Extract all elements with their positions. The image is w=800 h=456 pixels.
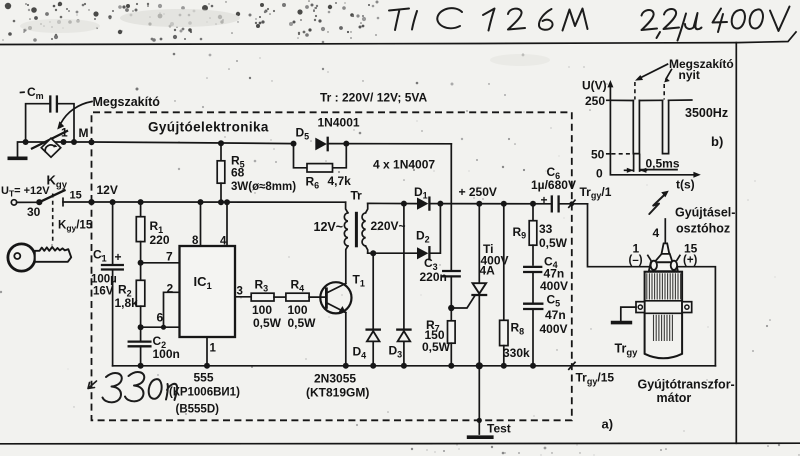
svg-text:16V: 16V (93, 286, 114, 298)
wire pin 2 (tied to pin 6) (161, 282, 180, 330)
wire pin 7 (141, 250, 180, 264)
svg-text:4: 4 (653, 226, 660, 240)
lightning arrow to distributor (649, 191, 669, 214)
svg-text:6: 6 (157, 311, 164, 325)
ground (coil bracket) (611, 307, 636, 323)
svg-text:2N3055: 2N3055 (314, 372, 356, 386)
svg-text:250: 250 (585, 94, 605, 108)
0,5ms width marker (625, 155, 680, 173)
coil mounting bracket (636, 301, 692, 314)
wire T1 emitter to ground rail (343, 313, 349, 369)
value label 330n (handwritten) (88, 372, 177, 402)
svg-text:+: + (541, 193, 548, 207)
battery terminal U_T=+12V (1, 185, 50, 205)
waveform 250V line with pulses (610, 100, 691, 154)
junction (Cm right leg) (71, 139, 77, 145)
transistor T1 2N3055 (306, 273, 369, 400)
svg-text:1N4001: 1N4001 (318, 116, 360, 130)
Gyujtoelektronika dashed enclosure (92, 112, 572, 420)
switch Kgy arm (39, 173, 67, 203)
capacitor C4 47n 400V (524, 254, 568, 302)
svg-text:100: 100 (252, 303, 272, 317)
svg-text:(+): (+) (683, 254, 698, 266)
wire pin 6 (141, 311, 180, 328)
svg-text:220: 220 (150, 233, 170, 247)
svg-text:4,7k: 4,7k (328, 174, 352, 188)
node (D4 tap) (370, 250, 376, 256)
crossing slash at box edge (Trgy/1) (569, 185, 612, 208)
svg-text:t(s): t(s) (676, 177, 695, 191)
svg-text:M: M (79, 126, 89, 140)
svg-text:nyit: nyit (679, 68, 700, 82)
wire R3-R4 (274, 296, 286, 298)
svg-text:1: 1 (210, 343, 217, 355)
wire secondary bottom to D2 (368, 252, 417, 254)
svg-text:Gyújtótranszfor-: Gyújtótranszfor- (638, 377, 735, 391)
diode D5 1N4001 (291, 116, 360, 151)
svg-text:Megszakító: Megszakító (93, 95, 161, 109)
svg-text:0,5W: 0,5W (253, 316, 282, 330)
svg-text:Test: Test (487, 422, 511, 436)
breaker contact (Megszakito) with cam (32, 131, 67, 157)
node thyristor/test junction (476, 362, 483, 369)
svg-text:68: 68 (231, 166, 245, 180)
svg-text:2: 2 (167, 282, 174, 296)
svg-text:(–): (–) (629, 254, 643, 266)
wire ground rail (bottom) (113, 365, 716, 367)
node R2/C2/pin6 junction (138, 324, 144, 330)
svg-text:(KT819GM): (KT819GM) (306, 386, 369, 400)
wire (15 to 12V rail) (63, 201, 92, 203)
crossing slash at box edge (Trgy/15) (569, 362, 615, 386)
node M at box edge (88, 199, 94, 205)
label Megszakito with leader arrow (57, 95, 160, 130)
ground Test (467, 422, 511, 438)
ground (top left, breaker circuit) (8, 142, 28, 158)
wire secondary top to D1 (368, 202, 417, 204)
svg-text:3: 3 (237, 286, 243, 298)
ignition key symbol (8, 244, 71, 271)
coil terminal 15 (+) (671, 242, 698, 270)
wire +250V rail (440, 203, 550, 205)
wire to Test ground (477, 366, 482, 434)
value label TIC 126 M (handwritten) (389, 8, 588, 30)
resistor R2 1,8k (115, 263, 145, 327)
resistor R7 150 0,5W (422, 308, 455, 369)
value label 2,2u 400V (handwritten) (642, 7, 790, 41)
capacitor C3 220n (420, 256, 460, 308)
wire 12V rail (92, 201, 346, 203)
diode D4 (353, 253, 380, 369)
resistor R5 68 3W (217, 140, 296, 205)
diode D2 (416, 204, 440, 260)
svg-text:15: 15 (70, 190, 82, 202)
svg-text:Tr: Tr (351, 189, 363, 203)
resistor R8 330k (500, 201, 530, 369)
capacitor C5 47n 400V (524, 293, 567, 369)
node M (79, 126, 95, 145)
svg-text:0,5W: 0,5W (422, 340, 451, 354)
terminal 15 (63, 190, 82, 206)
svg-text:0,5ms: 0,5ms (646, 157, 680, 171)
svg-text:8: 8 (192, 235, 199, 247)
svg-text:0: 0 (596, 166, 603, 180)
svg-text:4A: 4A (480, 264, 496, 278)
node (D3 tap) (401, 201, 407, 207)
resistor R3 100 0,5W (251, 278, 281, 330)
svg-text:50: 50 (591, 148, 605, 162)
svg-text:(КР1006ВИ1): (КР1006ВИ1) (169, 387, 240, 399)
svg-text:Gyújtásel-: Gyújtásel- (675, 206, 735, 220)
label Gyujtotranszformator (638, 377, 735, 405)
capacitor Cm (21, 85, 75, 142)
ignition transformer Trgy (coil body) (645, 243, 683, 358)
svg-text:3W(ø≈8mm): 3W(ø≈8mm) (231, 181, 296, 193)
wire terminal 4 (HT lead) (653, 219, 666, 243)
svg-text:0,5W: 0,5W (288, 316, 317, 330)
svg-text:400V: 400V (540, 322, 568, 336)
wire D5 branch down (M pulse line) (450, 144, 452, 269)
svg-text:400V: 400V (540, 279, 568, 293)
svg-text:12V: 12V (97, 183, 118, 197)
svg-text:3500Hz: 3500Hz (685, 106, 728, 120)
label Megszakito nyit with leader arrows (635, 57, 734, 100)
svg-text:(B555D): (B555D) (176, 404, 220, 416)
graph axes U(V) / t(s) (582, 79, 701, 192)
resistor R1 220 (136, 199, 170, 263)
coil terminal 1 (-) (629, 242, 658, 270)
wire T1 collector to transformer primary (346, 246, 348, 283)
svg-text:1: 1 (61, 126, 68, 140)
svg-text:7: 7 (166, 250, 173, 264)
capacitor C1 100u 16V (91, 199, 123, 366)
node 7 junction (138, 260, 144, 266)
svg-text:220n: 220n (420, 270, 447, 284)
svg-text:4: 4 (220, 236, 227, 248)
label Gyujtasel-osztohoz (675, 206, 735, 236)
resistor R9 33 0,5W (513, 201, 568, 265)
svg-text:+ 250V: + 250V (459, 185, 497, 199)
svg-text:a): a) (602, 417, 614, 432)
svg-text:UT= +12V: UT= +12V (1, 185, 50, 199)
svg-text:4 x 1N4007: 4 x 1N4007 (373, 158, 435, 172)
pin 3 wire (235, 286, 251, 298)
svg-text:100n: 100n (153, 347, 180, 361)
svg-text:47n: 47n (545, 308, 566, 322)
wire (breaker row to box) (26, 141, 179, 144)
node 1 (61, 126, 69, 146)
mechanical link Kgy/15 (dashed) (53, 194, 93, 244)
svg-text:+: + (115, 250, 122, 264)
node gate junction (448, 305, 454, 311)
wire gate to thyristor (451, 296, 475, 308)
wire (top rail M to corner) (179, 143, 451, 144)
svg-text:100: 100 (288, 303, 308, 317)
svg-text:30: 30 (27, 205, 41, 219)
label 555 / KP1006BI1 / B555D (169, 371, 240, 416)
svg-text:mátor: mátor (657, 391, 692, 405)
svg-text:555: 555 (194, 371, 214, 385)
svg-text:osztóhoz: osztóhoz (676, 222, 730, 236)
svg-text:33: 33 (539, 222, 553, 236)
svg-text:12V~: 12V~ (314, 220, 344, 234)
wire coil terminal 15 to ground rail (678, 267, 716, 366)
pin 4 (220, 199, 230, 247)
transformer Tr (314, 189, 406, 254)
resistor R6 4,7k (parallel with D5) (294, 144, 352, 191)
wire Trgy/1 feed (C6 to coil terminal 1) (588, 204, 650, 267)
svg-text:Tr : 220V/ 12V; 5VA: Tr : 220V/ 12V; 5VA (320, 91, 428, 105)
svg-text:Gyújtóelektronika: Gyújtóelektronika (148, 120, 269, 135)
capacitor C2 100n (129, 327, 180, 369)
svg-text:0,5W: 0,5W (539, 236, 568, 250)
diode D1 (414, 185, 440, 210)
svg-text:Kgy/15: Kgy/15 (58, 220, 93, 234)
svg-text:1µ/680V: 1µ/680V (531, 178, 576, 192)
wire R4 to T1 base (309, 296, 326, 298)
resistor R4 100 0,5W (286, 278, 316, 330)
pin 8 (192, 199, 204, 247)
node 30 (27, 199, 42, 219)
diode D3 (389, 204, 411, 369)
svg-text:100µ: 100µ (91, 274, 117, 286)
op-amp/timer IC1 (555) (180, 246, 236, 337)
capacitor C6 1u/680V (531, 165, 588, 211)
junction (ground leg) (23, 139, 29, 145)
svg-text:330k: 330k (503, 346, 530, 360)
pin 1 (204, 337, 217, 369)
svg-text:b): b) (711, 134, 723, 149)
node +250V rail start (437, 185, 496, 207)
svg-text:1,8k: 1,8k (115, 296, 139, 310)
svg-text:220V~: 220V~ (371, 219, 406, 233)
thyristor Ti 400V 4A (473, 201, 509, 366)
svg-text:U(V): U(V) (582, 79, 607, 93)
